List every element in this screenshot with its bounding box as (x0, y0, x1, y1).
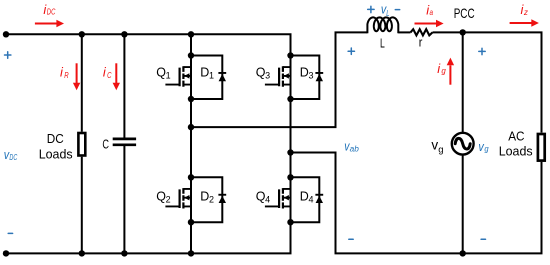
svg-text:DC: DC (47, 8, 56, 17)
svg-text:D: D (300, 66, 309, 80)
svg-text:PCC: PCC (454, 5, 475, 21)
svg-text:1: 1 (166, 71, 171, 81)
svg-text:ab: ab (350, 144, 360, 153)
svg-text:L: L (386, 9, 389, 18)
svg-text:4: 4 (309, 195, 314, 205)
svg-text:1: 1 (209, 71, 214, 81)
svg-text:z: z (523, 8, 528, 17)
svg-text:D: D (200, 189, 209, 203)
svg-text:DC: DC (47, 131, 64, 146)
svg-text:a: a (430, 8, 434, 17)
svg-text:Loads: Loads (499, 144, 533, 159)
svg-text:2: 2 (209, 195, 214, 205)
svg-text:DC: DC (9, 153, 17, 162)
svg-text:3: 3 (265, 71, 270, 81)
svg-text:2: 2 (166, 195, 171, 205)
svg-text:g: g (484, 144, 488, 154)
svg-text:D: D (300, 189, 309, 203)
svg-text:g: g (441, 65, 446, 75)
svg-text:C: C (102, 138, 109, 152)
svg-text:R: R (64, 71, 69, 80)
svg-text:r: r (419, 36, 423, 50)
svg-text:Loads: Loads (39, 146, 73, 161)
svg-text:C: C (107, 71, 112, 80)
svg-text:L: L (380, 37, 385, 51)
svg-text:D: D (200, 66, 209, 80)
svg-text:3: 3 (309, 71, 314, 81)
svg-text:AC: AC (508, 128, 524, 143)
svg-text:4: 4 (265, 195, 270, 205)
svg-text:g: g (438, 144, 443, 155)
